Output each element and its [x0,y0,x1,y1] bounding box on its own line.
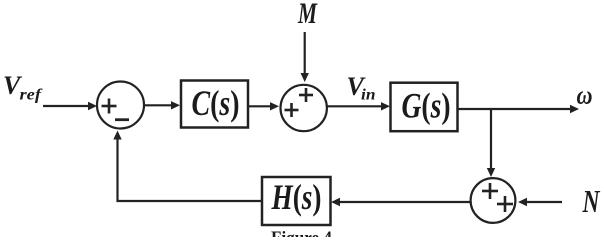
label V_in [347,72,376,104]
block G(s) [391,83,458,132]
wire S2 to G(s) [327,102,390,110]
svg-text:G(s): G(s) [402,85,451,125]
summing junction S2 [281,85,327,131]
wire S1 to C(s) [144,101,180,109]
wire C(s) to sum2 [248,102,279,110]
svg-text:C(s): C(s) [192,83,240,123]
wire S3 to H(s) [331,198,471,206]
svg-text:ref: ref [20,87,44,104]
plus sign top in S2 [299,88,313,102]
svg-text:M: M [297,0,318,30]
wire Vref to sum1 [43,102,97,110]
wire M to S2 [301,32,309,82]
wire N to S3 [518,198,562,206]
summing junction S3 [471,178,516,223]
plus sign top-left in S3 [482,183,498,199]
svg-text:ω: ω [577,81,593,110]
svg-text:Figure 4: Figure 4 [271,228,332,238]
output wire to omega [458,105,579,113]
plus sign right in S3 [497,196,513,212]
summing junction S1 [97,82,144,129]
plus sign in S1 [102,99,117,114]
block H(s) [262,177,331,225]
svg-text:H(s): H(s) [271,177,322,217]
plus sign left in S2 [285,103,299,117]
svg-text:in: in [361,87,376,104]
minus sign in S1 [115,118,129,121]
block C(s) [181,81,248,128]
svg-text:N: N [582,183,601,219]
feedback wire H(s) to S1 [113,131,262,202]
node branch [487,109,495,177]
label V_ref [3,71,43,104]
